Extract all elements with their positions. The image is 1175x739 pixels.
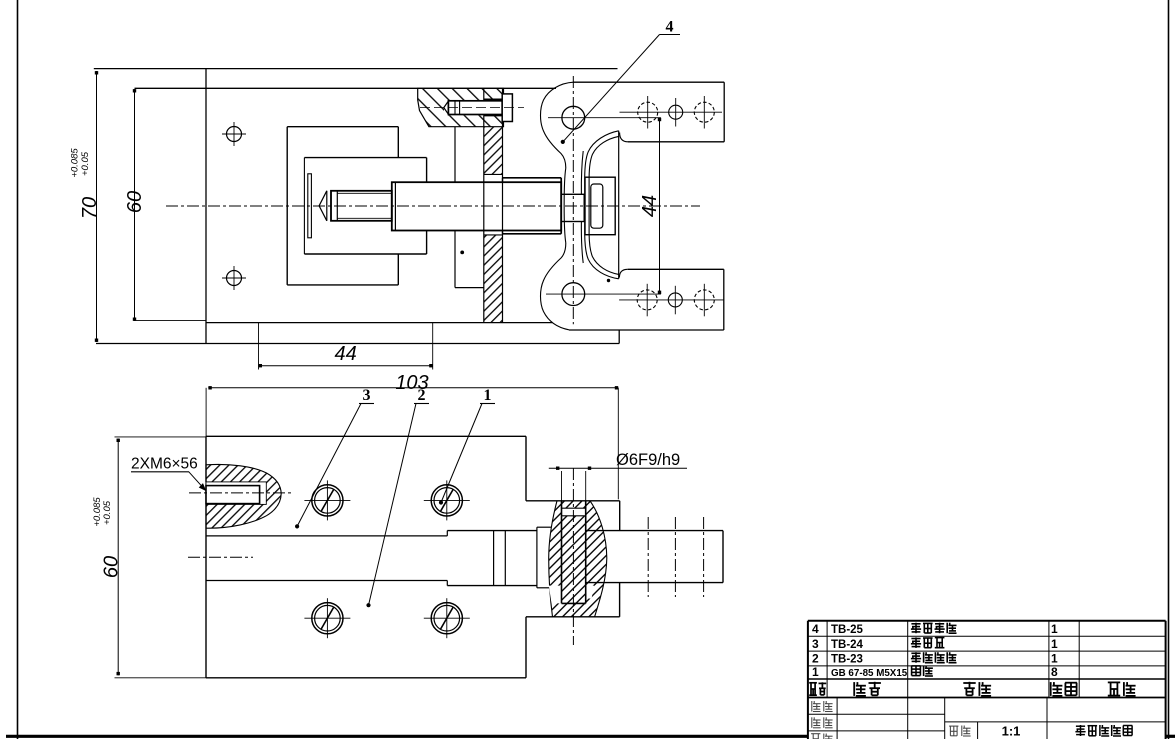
title block row lines	[808, 635, 1166, 637]
finger rod right	[586, 530, 723, 532]
svg-text:103: 103	[395, 372, 428, 394]
mount hole bottom-left	[227, 271, 242, 286]
stray reference dot near leaf	[607, 279, 610, 282]
svg-text:Ø6F9/h9: Ø6F9/h9	[616, 451, 680, 469]
gripper corner fillet top-right	[620, 133, 628, 142]
dimension diameter 6F9/h9	[561, 471, 563, 505]
bottom row holes in finger plate	[619, 299, 724, 301]
screw hole bottom-left	[312, 603, 343, 634]
screw hole top-right	[431, 485, 462, 516]
clamp body outline	[287, 126, 398, 128]
svg-text:1: 1	[1051, 652, 1058, 666]
dimension 44 right vertical	[659, 118, 661, 294]
title block audit row	[811, 733, 820, 735]
rod in channel	[447, 530, 537, 532]
guide plate edge-on strip	[454, 127, 456, 183]
svg-text:TB-23: TB-23	[831, 654, 863, 666]
title block column lines upper	[826, 621, 828, 698]
gripper waist right edge lower	[581, 222, 583, 264]
bottom view base outline	[206, 435, 526, 437]
finger mounting plate top-right	[573, 81, 724, 83]
title block outer border	[808, 620, 1166, 622]
pin white notch top	[562, 508, 586, 516]
guide plate bar edges	[483, 88, 485, 322]
svg-text:1: 1	[484, 387, 492, 404]
bottom view main centerline	[188, 556, 253, 558]
shaft collar	[503, 177, 562, 179]
mount hole top-left	[227, 127, 242, 142]
gripper waist left edge	[564, 168, 566, 243]
svg-text:3: 3	[812, 637, 819, 651]
svg-text:2XM6×56: 2XM6×56	[131, 455, 198, 472]
gripper corner fillet bottom-right	[619, 269, 627, 277]
pin section hatched blob	[549, 501, 607, 617]
pin white notch bottom wedges	[549, 586, 562, 604]
svg-text:60: 60	[101, 556, 123, 578]
stray reference dot on body	[460, 251, 464, 255]
gripper vertical centerline	[572, 76, 574, 324]
svg-text:4: 4	[812, 622, 819, 636]
pivot hole centerline top	[548, 117, 661, 119]
top view main plate outline	[94, 68, 618, 70]
clamp body cavity wall	[303, 158, 305, 254]
pin neck through gripper	[561, 194, 584, 221]
gripper finger outline - bottom lobe	[541, 243, 569, 330]
svg-text:1: 1	[1051, 622, 1058, 636]
dimension 60 vertical	[134, 89, 136, 321]
svg-text:+0.085: +0.085	[70, 148, 81, 178]
drawing frame bottom border	[6, 735, 808, 738]
dimension 70 vertical	[96, 71, 98, 342]
bulb - threaded hole boss hatched	[206, 464, 281, 528]
svg-text:GB 67-85 M5X15: GB 67-85 M5X15	[831, 668, 908, 679]
finger cam face inner contour	[589, 136, 619, 274]
leader dot for part 4	[561, 140, 565, 144]
svg-text:4: 4	[666, 19, 674, 36]
pin head block	[585, 177, 615, 235]
guide plate bar hatched section upper	[484, 127, 503, 175]
socket block	[536, 527, 538, 588]
svg-text:1:1: 1:1	[1002, 724, 1021, 739]
boss with screw - hatched	[418, 88, 504, 126]
drawing title	[1076, 725, 1085, 727]
gripper finger outline - top lobe	[541, 82, 574, 168]
svg-text:2: 2	[812, 652, 819, 666]
title block column lines lower	[836, 698, 838, 739]
channel step	[446, 531, 448, 536]
svg-text:60: 60	[124, 191, 146, 213]
drawing frame right border	[1168, 0, 1170, 739]
finger rod hole centerlines	[647, 517, 649, 597]
set screw with cone point	[319, 191, 327, 221]
finger cam face edge line	[618, 131, 620, 279]
svg-text:70: 70	[79, 197, 101, 219]
svg-text:8: 8	[1051, 665, 1058, 679]
svg-text:TB-25: TB-25	[831, 624, 864, 636]
finger mounting plate bottom-right	[628, 268, 724, 270]
svg-text:TB-24: TB-24	[831, 639, 864, 651]
piston shaft	[392, 182, 561, 230]
finger cam face outer contour	[585, 131, 619, 279]
gripper waist right edge upper	[581, 151, 583, 194]
dimension 44 bottom	[258, 323, 260, 370]
svg-text:3: 3	[363, 387, 371, 404]
screw hole top-left	[312, 485, 343, 516]
svg-text:1: 1	[812, 665, 819, 679]
svg-text:44: 44	[639, 195, 661, 217]
M6 hole centerline	[189, 492, 293, 494]
dimension 60 bottom view	[115, 436, 207, 438]
dowel pin body	[561, 501, 563, 604]
pin vertical centerline	[572, 468, 574, 645]
title block check row	[811, 717, 813, 728]
svg-text:+0.05: +0.05	[102, 500, 113, 525]
svg-text:+0.05: +0.05	[80, 151, 91, 176]
guide plate bar hatched section lower	[484, 235, 503, 323]
title block design row	[811, 701, 813, 712]
gripper pivot hole top	[562, 106, 585, 129]
boss screw head	[502, 94, 512, 122]
scale label	[949, 725, 958, 727]
svg-text:44: 44	[334, 343, 356, 365]
top row holes in finger plate	[620, 111, 723, 113]
svg-text:1: 1	[1051, 637, 1058, 651]
thin end plate in clamp	[308, 174, 312, 238]
top view horizontal centerline	[166, 205, 700, 207]
screw hole bottom-right	[431, 603, 462, 634]
rod channel lower edge	[206, 580, 447, 582]
gripper pivot hole bottom	[562, 283, 585, 306]
drawing frame left border	[17, 0, 19, 739]
dimension 103	[205, 388, 207, 437]
boss mounting screw	[444, 100, 504, 115]
rod channel upper edge	[206, 535, 447, 537]
pivot hole centerline bottom	[546, 293, 661, 295]
M6 threaded hole	[205, 482, 266, 505]
BOM header row	[809, 682, 817, 684]
pin blob outline	[549, 501, 557, 617]
